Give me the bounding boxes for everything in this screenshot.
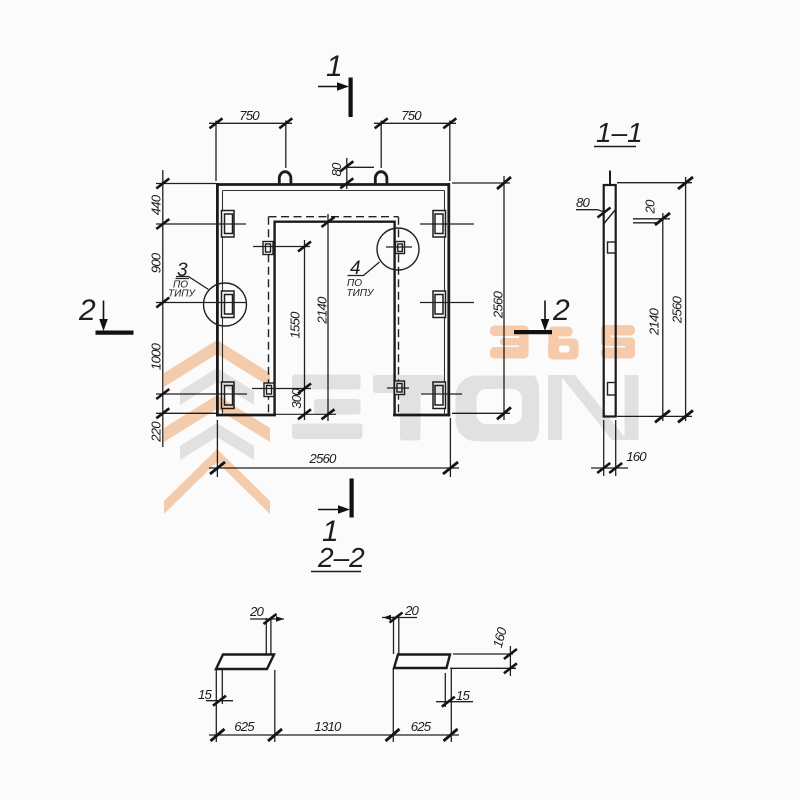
dim 160 line [509, 646, 511, 676]
svg-text:160: 160 [626, 449, 647, 464]
label 80 with leader [576, 209, 598, 211]
svg-text:2–2: 2–2 [317, 542, 365, 573]
watermark letter N [548, 375, 639, 440]
dim 15 left line [206, 700, 233, 702]
ticks top dimension [210, 118, 457, 128]
svg-text:ТИПУ: ТИПУ [168, 289, 197, 300]
dim 20 left extensions [265, 618, 267, 654]
svg-text:2: 2 [552, 294, 570, 327]
rib section right (parallelogram) [394, 655, 450, 669]
lifting loop right [375, 172, 387, 185]
leader detail 3 [176, 277, 209, 290]
svg-text:20: 20 [404, 603, 420, 618]
section marker 2 right [514, 301, 552, 333]
dimension line 1550/300 [304, 240, 306, 420]
ticks left chain [156, 179, 169, 419]
dim 15 right line [436, 701, 473, 703]
svg-text:1000: 1000 [149, 342, 164, 370]
bottom chain dimension line [209, 734, 459, 736]
fixture opening-edge top-right (detail 4) [396, 242, 405, 254]
svg-text:15: 15 [456, 688, 471, 703]
callout circle detail 3 [204, 283, 247, 326]
bottom dimension 2560 extension lines [216, 420, 218, 477]
dimension line 750 right [374, 122, 456, 124]
svg-text:1310: 1310 [314, 719, 342, 734]
fixture left-wall middle (detail 3) [222, 291, 235, 318]
dimension line 2140 section [662, 213, 664, 421]
right dimension 2560 extension lines [452, 182, 510, 184]
dim 15 left extensions [215, 670, 217, 742]
SECTION11 TEXT [576, 117, 685, 464]
dim 20 left line [250, 618, 284, 620]
svg-text:900: 900 [149, 252, 164, 273]
fixture right-wall middle [433, 291, 446, 318]
dim 160 extensions (section 2-2) [453, 653, 513, 655]
dim 20 right line [382, 617, 417, 619]
logo chevron 1 (peach) [164, 340, 270, 387]
svg-text:1: 1 [326, 50, 343, 83]
fixture opening-edge bottom-left [264, 383, 274, 397]
fixture right-wall top [433, 211, 446, 238]
SECTION22 TEXT [198, 542, 510, 734]
right wall fixture centerlines [420, 223, 474, 225]
MAINVIEW TEXT [78, 50, 570, 548]
bar top diagonal break [604, 210, 616, 224]
panel inner thin face lines [223, 191, 445, 414]
MAINVIEW [96, 78, 553, 518]
opening bottom projection line [276, 413, 336, 415]
dim 15 right extensions [444, 673, 446, 707]
svg-text:80: 80 [329, 162, 344, 177]
logo chevron 4 (gray) [180, 423, 254, 460]
svg-text:2560: 2560 [308, 451, 337, 466]
callout circle detail 4 [377, 228, 419, 270]
dimension 80 loop height [346, 158, 348, 189]
extension 20 level [633, 218, 670, 220]
bar fixture square upper [608, 242, 616, 253]
watermark digit 5 [601, 325, 635, 359]
logo chevron 3 (peach) [164, 395, 270, 442]
svg-text:2560: 2560 [670, 295, 685, 324]
opening fixtures centerlines [253, 246, 310, 248]
watermark letter T [373, 375, 444, 441]
svg-text:750: 750 [401, 108, 422, 123]
panel outline (thick) [216, 183, 450, 416]
fixture right-wall bottom [433, 382, 446, 409]
section marker 1 bottom [318, 479, 352, 518]
svg-text:80: 80 [576, 195, 591, 210]
logo chevron 5 (peach) [164, 449, 270, 514]
svg-text:1–1: 1–1 [596, 117, 643, 148]
watermark digit 3 [490, 326, 529, 359]
svg-text:2: 2 [78, 294, 96, 327]
svg-text:750: 750 [239, 108, 260, 123]
svg-text:3: 3 [177, 260, 188, 281]
dim 20 right extensions [393, 617, 395, 655]
svg-text:ТИПУ: ТИПУ [347, 288, 376, 299]
dimension line 160 [591, 467, 628, 469]
svg-text:4: 4 [350, 258, 361, 279]
fixture left-wall top [222, 211, 235, 238]
fixture opening-edge bottom-right [395, 381, 405, 395]
extension verticals to bottom chain [274, 670, 276, 742]
fixture left-wall bottom [222, 382, 235, 409]
bar fixture square lower [608, 383, 616, 396]
svg-text:1550: 1550 [288, 311, 303, 339]
watermark letter O [456, 376, 540, 442]
svg-text:300: 300 [289, 388, 304, 409]
ticks bottom chain [211, 729, 458, 741]
svg-text:625: 625 [411, 719, 432, 734]
extension top [617, 182, 692, 184]
svg-text:20: 20 [643, 199, 658, 215]
section marker 1 top [318, 78, 351, 118]
opening visible edge (solid) [275, 221, 395, 415]
section 1-1 bar outline [604, 185, 616, 417]
svg-text:440: 440 [149, 194, 164, 215]
loop wire top [609, 171, 611, 186]
ticks section 1-1 [655, 177, 693, 422]
dimension line 2560 bottom [209, 467, 459, 469]
dimension 160 bottom extensions [603, 420, 605, 476]
svg-text:20: 20 [249, 604, 265, 619]
dimension line 2140 [327, 214, 329, 421]
opening hidden contour (dashed) [269, 217, 399, 414]
section marker 2 left [96, 301, 134, 333]
leader detail 4 [348, 262, 380, 276]
svg-text:2560: 2560 [491, 290, 506, 319]
extension bottom [617, 415, 692, 417]
rib section left (parallelogram) [216, 655, 274, 670]
dimension line 2560 right [503, 176, 505, 420]
lifting loop left [279, 172, 291, 185]
left chain extension lines [156, 183, 216, 185]
svg-text:2140: 2140 [647, 307, 662, 336]
SECTION22 [206, 613, 517, 743]
svg-text:625: 625 [234, 719, 255, 734]
top dimension extension lines [215, 121, 217, 182]
logo chevron 2 (gray) [180, 368, 254, 405]
SECTION11 [576, 171, 693, 477]
dimension line 2560 section [685, 177, 687, 421]
dimension line 750 left [209, 122, 292, 124]
svg-text:220: 220 [149, 421, 164, 443]
watermark digit 6 [548, 327, 579, 360]
watermark letter E [292, 375, 363, 440]
svg-text:15: 15 [198, 687, 213, 702]
WATERMARK [164, 325, 639, 514]
left dimension chain line [162, 170, 164, 447]
svg-text:2140: 2140 [315, 296, 330, 325]
fixture opening-edge top-left [263, 242, 273, 255]
